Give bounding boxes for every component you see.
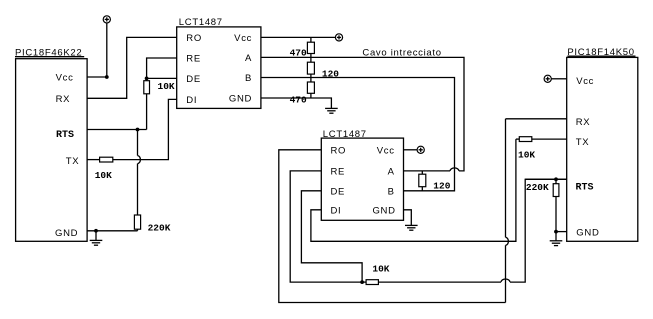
chip U4 PIC18F14K50 body xyxy=(567,57,638,241)
wire R5 to B line xyxy=(310,74,312,82)
chip U2 pin label A xyxy=(245,53,252,64)
wire TX to DI of U2 xyxy=(113,99,177,159)
power symbol P4 xyxy=(544,75,551,82)
wire hop line2 over RX vertical xyxy=(501,279,510,282)
chip U3 pin label DI xyxy=(331,205,342,216)
resistor R1 10K label xyxy=(158,81,175,92)
wire U2 RE stub xyxy=(147,58,177,78)
wire R1 to DE node xyxy=(146,78,148,80)
resistor R8 10K body xyxy=(366,280,378,285)
svg-text:220K: 220K xyxy=(148,222,171,233)
svg-text:Cavo intrecciato: Cavo intrecciato xyxy=(362,47,441,58)
svg-text:GND: GND xyxy=(372,205,395,216)
resistor R7 120 body xyxy=(419,174,426,187)
wire RTS up to resistor R1 xyxy=(146,94,148,130)
chip U4 label PIC18F14K50 xyxy=(567,47,634,58)
wire R8 to hop (line 2) xyxy=(378,281,501,283)
wire U1 RX to U2 RO xyxy=(87,37,177,98)
svg-text:RO: RO xyxy=(331,145,347,156)
wire U2 Vcc stub to P2 xyxy=(261,36,336,38)
svg-text:RTS: RTS xyxy=(56,130,74,141)
wire hop RX vertical over line1 xyxy=(506,237,509,245)
resistor R4 470 label xyxy=(290,48,307,59)
svg-text:A: A xyxy=(245,53,252,64)
wire hop A over B vertical xyxy=(450,168,459,171)
resistor R2 220K label xyxy=(148,222,171,233)
svg-text:DE: DE xyxy=(186,74,201,85)
net label Cavo intrecciato xyxy=(362,47,441,58)
resistor R7 120 stem from A xyxy=(421,171,423,174)
wire U3 Vcc stub to P3 xyxy=(404,149,418,151)
svg-text:RO: RO xyxy=(186,33,202,44)
junction dot GND right xyxy=(554,230,558,234)
ground symbol G2 xyxy=(325,108,338,113)
svg-text:Vcc: Vcc xyxy=(576,76,594,87)
svg-text:Vcc: Vcc xyxy=(56,72,74,83)
chip U3 pin label DE xyxy=(331,186,346,197)
svg-text:RE: RE xyxy=(186,54,201,65)
svg-text:10K: 10K xyxy=(372,264,389,275)
wire U2 GND stub xyxy=(261,98,332,108)
svg-text:10K: 10K xyxy=(518,149,535,160)
chip U1 pin label Vcc xyxy=(56,72,74,83)
wire U4 RTS stub xyxy=(525,178,567,180)
chip U1 pin label RTS xyxy=(56,130,74,141)
chip U4 pin label RTS xyxy=(576,182,594,193)
chip U3 pin label RE xyxy=(331,167,346,178)
svg-text:120: 120 xyxy=(433,180,450,191)
chip U2 pin label DE xyxy=(186,74,201,85)
wire 220K branch upper xyxy=(137,130,139,156)
chip U2 LCT1487 body xyxy=(177,27,261,109)
svg-text:GND: GND xyxy=(55,228,78,239)
chip U3 pin label GND xyxy=(372,205,395,216)
svg-text:Vcc: Vcc xyxy=(377,145,395,156)
svg-text:RTS: RTS xyxy=(576,182,594,193)
svg-text:GND: GND xyxy=(576,227,599,238)
resistor R10 220K body xyxy=(553,184,559,197)
chip U3 pin label RO xyxy=(331,145,347,156)
svg-text:RX: RX xyxy=(56,94,71,105)
node A wire (Cavo intrecciato) xyxy=(261,57,464,170)
wire U4 GND stub xyxy=(556,231,567,233)
chip U4 pin label TX xyxy=(576,137,590,148)
wire RX vertical upper xyxy=(505,119,507,238)
wire U2 DE stub xyxy=(147,77,177,79)
ground symbol G3 xyxy=(405,225,418,230)
svg-text:TX: TX xyxy=(576,137,590,148)
svg-text:GND: GND xyxy=(229,94,252,105)
wire R7 to B line xyxy=(421,187,423,191)
ground symbol G4 xyxy=(550,232,563,246)
chip U1 PIC18F46K22 body xyxy=(16,59,88,242)
junction dot GND/ground xyxy=(94,229,98,233)
ground symbol G1 xyxy=(90,231,103,245)
node A wire to U3 A pin xyxy=(404,170,451,172)
wire U3 DE leg xyxy=(301,191,362,282)
svg-text:120: 120 xyxy=(322,68,339,79)
resistor R7 120 label xyxy=(433,180,450,191)
chip U4 pin label Vcc xyxy=(576,76,594,87)
resistor R9 10K label xyxy=(518,149,535,160)
svg-text:10K: 10K xyxy=(95,170,112,181)
chip U3 pin label B xyxy=(388,186,395,197)
power symbol P2 xyxy=(335,34,342,41)
wire R6 to GND line xyxy=(310,93,312,98)
chip U2 pin label B xyxy=(245,73,252,84)
wire U3 RE left leg xyxy=(290,171,362,282)
svg-text:LCT1487: LCT1487 xyxy=(323,129,367,140)
chip U4 pin label RX xyxy=(576,117,591,128)
wire 220K branch lower xyxy=(137,164,139,215)
chip U3 pin label A xyxy=(388,167,395,178)
chip U2 pin label RE xyxy=(186,54,201,65)
resistor R5 120 label xyxy=(322,68,339,79)
wire U3 RO to U4 RX (bottom line 3) xyxy=(279,150,506,303)
wire U4 RX stub xyxy=(506,118,567,120)
resistor R10 220K label xyxy=(526,182,549,193)
power symbol P3 xyxy=(417,146,424,153)
resistor R1 10K body xyxy=(144,81,150,94)
svg-text:DI: DI xyxy=(186,95,197,106)
chip U2 label LCT1487 xyxy=(179,17,223,28)
junction dot RTS/220K right xyxy=(554,177,558,181)
chip U1 pin label GND xyxy=(55,228,78,239)
wire P1 stem to Vcc xyxy=(106,23,108,77)
svg-text:LCT1487: LCT1487 xyxy=(179,17,223,28)
wire hop over TX line xyxy=(138,156,141,164)
resistor R4 470 body xyxy=(307,42,314,53)
chip U2 pin label Vcc xyxy=(234,33,252,44)
junction dot Vcc/P1 xyxy=(105,75,109,79)
wire TX stub left part xyxy=(516,138,519,140)
svg-text:DE: DE xyxy=(331,186,346,197)
chip U4 pin label GND xyxy=(576,227,599,238)
svg-text:B: B xyxy=(245,73,252,84)
wire chain stem Vcc to R4 xyxy=(310,37,312,42)
wire U1 GND stub xyxy=(87,230,137,232)
chip U3 label LCT1487 xyxy=(323,129,367,140)
junction dot RTS/220K xyxy=(136,128,140,132)
wire R9 to U4 TX xyxy=(532,138,567,140)
chip U2 pin label GND xyxy=(229,94,252,105)
wire U1 TX line xyxy=(87,159,100,161)
chip U3 LCT1487 body xyxy=(321,138,403,220)
svg-text:B: B xyxy=(388,186,395,197)
resistor R3 10K body xyxy=(100,157,113,162)
chip U2 pin label RO xyxy=(186,33,202,44)
wire U3 DI to U4 TX (line 1) xyxy=(311,139,516,241)
chip U1 pin label RX xyxy=(56,94,71,105)
wire RX vertical lower xyxy=(505,245,507,302)
wire dot to R10 xyxy=(555,179,557,183)
svg-text:RX: RX xyxy=(576,117,591,128)
svg-text:220K: 220K xyxy=(526,182,549,193)
chip U2 pin label DI xyxy=(186,95,197,106)
chip U1 label PIC18F46K22 xyxy=(15,47,82,58)
resistor R6 470 body xyxy=(307,82,314,93)
node B wire xyxy=(261,78,455,191)
svg-text:RE: RE xyxy=(331,167,346,178)
svg-text:470: 470 xyxy=(290,95,307,106)
wire dot to R8 xyxy=(362,281,366,283)
resistor R2 220K body xyxy=(134,215,140,229)
svg-text:Vcc: Vcc xyxy=(234,33,252,44)
resistor R5 120 body xyxy=(307,62,314,74)
resistor R6 470 label xyxy=(290,95,307,106)
junction dot RE/DE bottom xyxy=(360,280,364,284)
svg-text:A: A xyxy=(388,167,395,178)
resistor R9 10K body xyxy=(519,137,532,142)
resistor R8 10K label xyxy=(372,264,389,275)
resistor R3 10K label xyxy=(95,170,112,181)
wire U3 GND stub xyxy=(404,210,412,226)
wire line2 to RTS vertical xyxy=(510,179,567,282)
svg-text:TX: TX xyxy=(66,156,80,167)
chip U1 pin label TX xyxy=(66,156,80,167)
wire R4 to A line xyxy=(310,54,312,63)
wire R10 to GND line xyxy=(555,197,557,232)
junction dot RE/DE xyxy=(145,77,149,81)
svg-text:470: 470 xyxy=(290,48,307,59)
wire R2 to GND line xyxy=(137,229,139,231)
wire U4 Vcc stub to P4 xyxy=(551,78,566,80)
chip U3 pin label Vcc xyxy=(377,145,395,156)
power symbol P1 xyxy=(103,16,110,23)
wire U1 RTS stub xyxy=(87,129,147,131)
svg-text:10K: 10K xyxy=(158,81,175,92)
wire U1 Vcc stub xyxy=(87,76,107,78)
svg-text:DI: DI xyxy=(331,205,342,216)
